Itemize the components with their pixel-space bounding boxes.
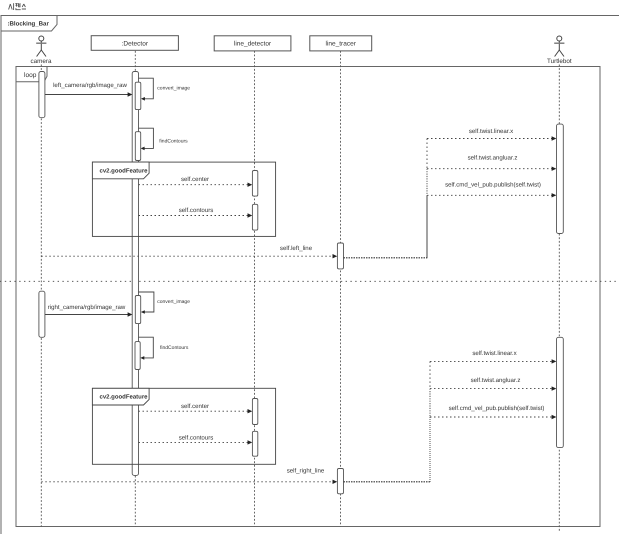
svg-text:convert_image: convert_image	[157, 85, 190, 91]
svg-text:line_detector: line_detector	[234, 41, 272, 48]
svg-text:self.contours: self.contours	[179, 434, 214, 441]
svg-text:self.left_line: self.left_line	[280, 245, 313, 252]
svg-text:findContours: findContours	[160, 345, 189, 351]
svg-text:left_camera/rgb/image_raw: left_camera/rgb/image_raw	[53, 82, 127, 89]
svg-text:Turtlebot: Turtlebot	[547, 58, 572, 65]
svg-text:convert_image: convert_image	[157, 299, 190, 305]
svg-text:cv2.goodFeature: cv2.goodFeature	[100, 168, 149, 175]
svg-text:cv2.goodFeature: cv2.goodFeature	[100, 394, 149, 401]
svg-text:self.center: self.center	[181, 403, 209, 410]
svg-text:self.cmd_vel_pub.publish(self.: self.cmd_vel_pub.publish(self.twist)	[449, 405, 545, 412]
svg-text::Detector: :Detector	[122, 41, 149, 48]
svg-text:self.twist.angluar.z: self.twist.angluar.z	[468, 155, 518, 162]
svg-text:self.contours: self.contours	[179, 207, 214, 214]
svg-text:self.twist.linear.x: self.twist.linear.x	[469, 128, 513, 135]
svg-text:right_camera/rgb/image_raw: right_camera/rgb/image_raw	[48, 304, 126, 311]
svg-text:self.cmd_vel_pub.publish(self.: self.cmd_vel_pub.publish(self.twist)	[445, 182, 541, 189]
svg-text::Blocking_Bar: :Blocking_Bar	[8, 21, 50, 28]
svg-text:self.twist.linear.x: self.twist.linear.x	[472, 350, 516, 357]
svg-text:loop: loop	[24, 72, 37, 79]
svg-text:self.center: self.center	[181, 176, 209, 183]
svg-text:camera: camera	[31, 58, 52, 65]
svg-text:self.twist.angluar.z: self.twist.angluar.z	[471, 377, 521, 384]
svg-text:self_right_line: self_right_line	[287, 468, 325, 475]
svg-text:findContours: findContours	[159, 139, 188, 145]
svg-text:line_tracer: line_tracer	[326, 41, 357, 48]
